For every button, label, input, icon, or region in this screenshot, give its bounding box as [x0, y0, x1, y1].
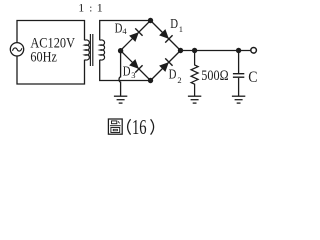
svg-text:3: 3: [131, 70, 135, 80]
ac source V1: [10, 43, 23, 56]
transformer T1 primary winding: [85, 40, 90, 60]
wire primary bottom (left loop bottom side): [17, 56, 85, 84]
svg-text:1: 1: [97, 1, 103, 15]
svg-text:D: D: [123, 65, 131, 80]
svg-text:1: 1: [78, 1, 84, 15]
node junction left of bridge: [118, 48, 123, 53]
transformer T1 secondary winding: [100, 40, 105, 60]
svg-text:C: C: [248, 69, 257, 86]
node junction top of bridge: [148, 18, 153, 23]
resistor R (500 ohm): [191, 51, 198, 97]
svg-text:D: D: [169, 67, 177, 82]
node junction at resistor: [192, 48, 197, 53]
transformer T1 core: [89, 34, 91, 66]
wire primary top (left loop top side): [17, 21, 85, 43]
diode D4 (left-to-top edge): [129, 28, 143, 42]
output terminal (open circle): [251, 48, 257, 54]
wire bridge left node to ground (with hop over bottom wire): [119, 51, 121, 97]
diode bridge diamond: edge top-right: [151, 21, 181, 51]
svg-text:D: D: [170, 17, 178, 32]
caption glyph 圖 (drawn): [108, 119, 122, 134]
svg-text::: :: [89, 2, 92, 14]
svg-text:1: 1: [179, 24, 183, 34]
diode D3 (left-to-bottom edge): [129, 59, 143, 73]
wire secondary top to bridge: [100, 21, 151, 41]
wire bridge right node to output: [181, 50, 251, 52]
diode D2 (bottom-to-right edge): [159, 58, 173, 72]
diode D1 (top-to-right edge): [159, 29, 173, 43]
ground (below resistor): [188, 96, 201, 103]
svg-text:4: 4: [122, 26, 127, 36]
wire secondary bottom to bridge bottom node: [100, 60, 151, 81]
svg-text:500Ω: 500Ω: [201, 68, 229, 84]
capacitor C: [238, 51, 240, 74]
node junction right of bridge: [178, 48, 183, 53]
node junction bottom of bridge: [148, 78, 153, 83]
diode bridge diamond: edge bottom-right: [151, 51, 181, 81]
svg-text:2: 2: [177, 75, 181, 85]
ground (below capacitor): [232, 96, 245, 103]
node junction at capacitor: [236, 48, 241, 53]
svg-text:60Hz: 60Hz: [30, 50, 57, 66]
diode bridge diamond: edge left-top: [121, 21, 151, 51]
diode bridge diamond: edge left-bottom: [121, 51, 151, 81]
svg-text:D: D: [115, 21, 123, 36]
caption text (16): [128, 119, 131, 134]
ground (below bridge left node): [114, 96, 127, 103]
svg-text:16: 16: [132, 115, 147, 139]
